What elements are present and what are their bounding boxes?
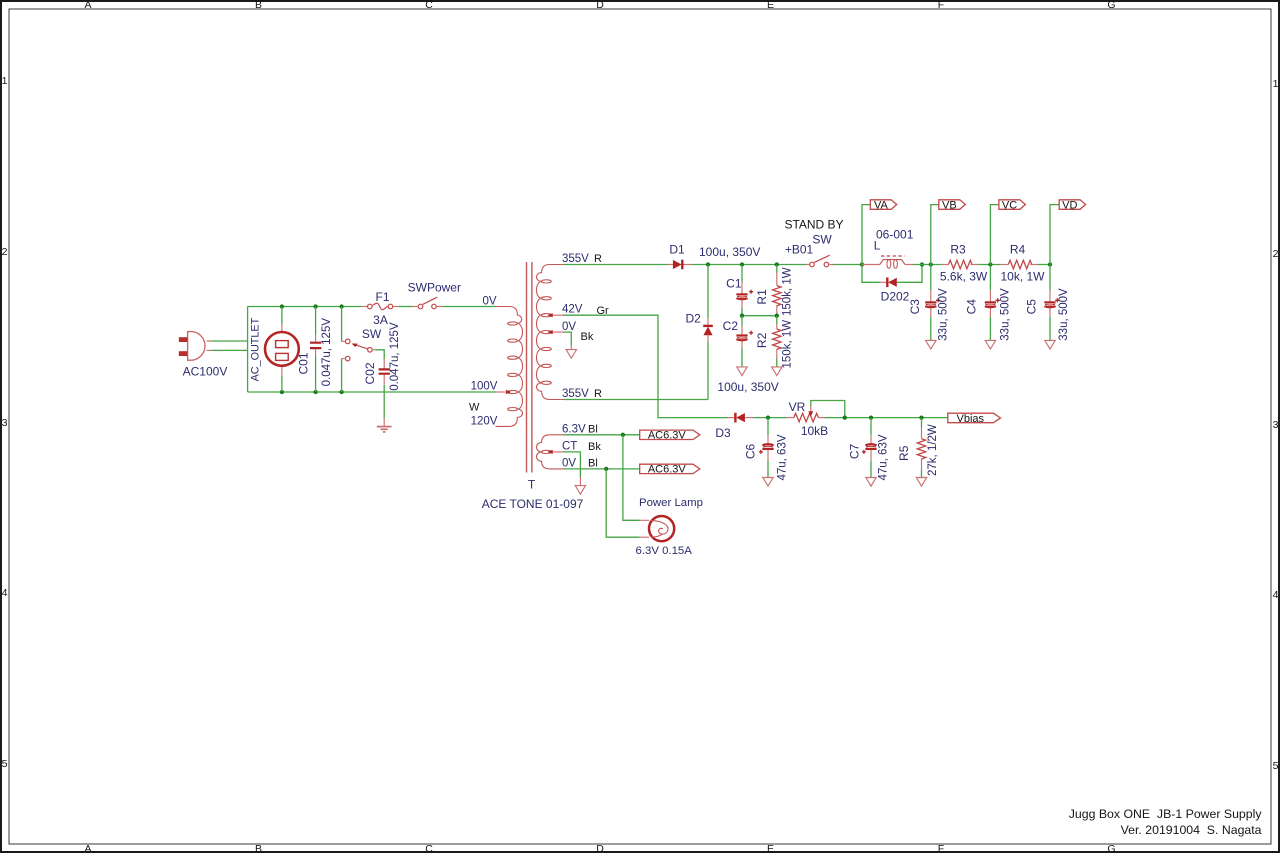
svg-text:VA: VA [874, 199, 889, 211]
capacitor C4 [965, 265, 1012, 350]
wire R4 to VD [1039, 264, 1051, 266]
column letters bottom [84, 843, 1115, 853]
capacitor C1 [699, 245, 760, 316]
svg-text:Jugg Box ONE JB-1 Power Suppl: Jugg Box ONE JB-1 Power Supply [1069, 807, 1263, 821]
svg-text:C5: C5 [1025, 299, 1039, 315]
wire R3 to VC [978, 264, 1000, 266]
svg-text:E: E [767, 843, 774, 853]
potentiometer VR 10kB [787, 400, 829, 438]
svg-text:6.3V: 6.3V [562, 423, 586, 435]
plug P1 AC100V [179, 332, 228, 379]
ground earth symbol [377, 418, 392, 432]
svg-text:33u, 500V: 33u, 500V [938, 288, 950, 341]
svg-text:D3: D3 [715, 426, 731, 440]
svg-text:100u, 350V: 100u, 350V [699, 245, 760, 259]
svg-text:B: B [255, 843, 262, 853]
svg-text:Bl: Bl [588, 423, 598, 435]
diode D3 [715, 413, 753, 440]
wire VB riser [931, 205, 939, 265]
svg-text:C6: C6 [744, 444, 758, 460]
svg-text:STAND BY: STAND BY [784, 218, 843, 232]
label AC6.3V bottom [640, 464, 700, 476]
svg-text:AC6.3V: AC6.3V [648, 464, 687, 476]
svg-text:10k, 1W: 10k, 1W [1000, 270, 1045, 284]
svg-text:C7: C7 [848, 444, 862, 460]
svg-text:10kB: 10kB [801, 424, 828, 438]
wire 42V to D3 [563, 315, 728, 417]
switch SW selector [342, 307, 382, 393]
transformer secondary1 0V tap arrow [553, 331, 564, 333]
capacitor C6 [744, 418, 789, 487]
wire SWPower to transformer 0V [442, 306, 496, 308]
svg-text:Bk: Bk [588, 441, 601, 453]
svg-text:D: D [596, 0, 604, 11]
wire 355V top to D1 [563, 264, 668, 266]
svg-text:D: D [596, 843, 604, 853]
capacitor C7 [848, 418, 890, 487]
svg-text:SW: SW [362, 327, 382, 341]
svg-text:W: W [469, 402, 480, 414]
svg-text:1: 1 [1273, 78, 1279, 90]
svg-text:T: T [528, 478, 536, 492]
svg-text:Ver. 20191004 S. Nagata: Ver. 20191004 S. Nagata [1121, 823, 1262, 837]
svg-text:AC6.3V: AC6.3V [648, 430, 687, 442]
svg-text:150k, 1W: 150k, 1W [782, 267, 794, 316]
svg-text:C4: C4 [965, 299, 979, 315]
node bottom bus junctions [280, 390, 284, 394]
svg-text:47u, 63V: 47u, 63V [877, 434, 889, 480]
svg-text:33u, 500V: 33u, 500V [999, 288, 1011, 341]
svg-text:100V: 100V [471, 381, 498, 393]
svg-text:1: 1 [2, 75, 8, 87]
svg-text:B: B [255, 0, 262, 11]
wire plug to bus [212, 341, 248, 350]
svg-text:C01: C01 [296, 352, 310, 374]
svg-text:5: 5 [2, 758, 8, 770]
svg-text:0V: 0V [483, 296, 497, 308]
capacitor C5 [1025, 265, 1070, 350]
svg-text:0.047u, 125V: 0.047u, 125V [389, 322, 401, 391]
svg-text:D2: D2 [686, 312, 702, 326]
svg-text:355V: 355V [562, 388, 589, 400]
outlet J1 AC_OUTLET [249, 307, 298, 393]
wire VR to Vbias [825, 417, 948, 419]
svg-text:2: 2 [2, 246, 8, 258]
resistor R1 [755, 265, 794, 316]
svg-text:F1: F1 [375, 290, 389, 304]
svg-text:47u, 63V: 47u, 63V [776, 434, 788, 480]
svg-text:Vbias: Vbias [957, 413, 985, 425]
svg-text:ACE TONE 01-097: ACE TONE 01-097 [482, 497, 584, 511]
svg-text:A: A [84, 843, 91, 853]
svg-text:A: A [84, 0, 91, 11]
row numbers right [1273, 78, 1279, 772]
svg-text:D202: D202 [881, 290, 910, 304]
svg-text:D1: D1 [669, 242, 685, 256]
fuse F1 3A [361, 290, 399, 327]
svg-text:R4: R4 [1010, 243, 1026, 257]
label VA [870, 199, 896, 211]
svg-text:120V: 120V [471, 416, 498, 428]
svg-text:4: 4 [1273, 589, 1279, 601]
label VB [939, 199, 966, 211]
row numbers left [2, 75, 8, 770]
capacitor C01 [296, 307, 333, 393]
svg-text:Bk: Bk [581, 331, 594, 343]
svg-text:355V: 355V [562, 253, 589, 265]
transformer T secondary 1 winding [537, 265, 564, 400]
capacitor C02 [363, 322, 401, 391]
svg-text:R: R [594, 388, 602, 400]
wire D3 to VR [753, 417, 787, 419]
svg-text:R3: R3 [950, 243, 966, 257]
transformer secondary1 42V tap arrow [553, 314, 564, 316]
diode D2 [686, 265, 713, 343]
wire standby SW to VA node [833, 264, 862, 266]
transformer secondary2 CT tap arrow [553, 451, 564, 453]
svg-text:C02: C02 [363, 362, 377, 384]
wire VC riser [990, 205, 999, 265]
svg-text:F: F [938, 843, 944, 853]
transformer T core [527, 262, 532, 473]
svg-text:SWPower: SWPower [408, 281, 461, 295]
svg-text:C: C [425, 843, 433, 853]
svg-text:3A: 3A [373, 313, 388, 327]
svg-text:06-001: 06-001 [876, 228, 914, 242]
svg-text:C2: C2 [723, 319, 739, 333]
svg-text:VD: VD [1062, 199, 1077, 211]
wire lamp bottom feed [606, 469, 640, 537]
svg-text:0V: 0V [562, 457, 576, 469]
wire 0V to AC6.3V label [563, 468, 640, 470]
capacitor C2 [717, 316, 778, 394]
svg-text:R: R [594, 253, 602, 265]
svg-text:0.047u, 125V: 0.047u, 125V [321, 318, 333, 387]
ground sec1 0V [566, 350, 576, 359]
svg-text:0V: 0V [562, 321, 576, 333]
label AC6.3V top [640, 430, 700, 442]
resistor R2 [755, 316, 794, 376]
wire D2 to 355V bottom [563, 342, 708, 400]
resistor R4 [1000, 243, 1045, 284]
svg-text:C3: C3 [908, 299, 922, 315]
wire VD riser [1050, 205, 1059, 265]
wire C02 to earth [383, 385, 385, 418]
resistor R3 [940, 243, 988, 284]
svg-text:VC: VC [1002, 199, 1017, 211]
label VD [1059, 199, 1085, 211]
svg-text:2: 2 [1273, 248, 1279, 260]
wire D1 to standby SW [692, 264, 806, 266]
svg-text:3: 3 [2, 417, 8, 429]
svg-text:6.3V 0.15A: 6.3V 0.15A [636, 545, 693, 557]
wire sec1 0V to ground [563, 332, 571, 345]
wire CT to ground [563, 452, 580, 477]
svg-text:C: C [425, 0, 433, 11]
transformer primary 100V tap arrow [496, 391, 505, 393]
transformer T secondary 2 winding 6.3V [537, 435, 564, 469]
svg-text:100u, 350V: 100u, 350V [717, 380, 778, 394]
svg-text:E: E [767, 0, 774, 11]
svg-text:R2: R2 [755, 332, 769, 348]
svg-text:+B01: +B01 [785, 243, 814, 257]
svg-text:VB: VB [942, 199, 957, 211]
svg-text:R5: R5 [897, 445, 911, 461]
resistor R5 [897, 418, 939, 487]
diode D1 [668, 242, 692, 269]
svg-text:27k, 1/2W: 27k, 1/2W [927, 424, 939, 476]
wire VA riser [862, 205, 870, 265]
svg-text:Bl: Bl [588, 457, 598, 469]
inductor L 06-001 [862, 228, 914, 269]
svg-text:R1: R1 [755, 289, 769, 305]
transformer T primary winding [496, 307, 523, 427]
svg-text:SW: SW [812, 232, 832, 246]
svg-text:5.6k, 3W: 5.6k, 3W [940, 270, 988, 284]
svg-text:G: G [1107, 0, 1115, 11]
ground CT [575, 486, 585, 495]
wire 6.3V to AC6.3V label [563, 434, 640, 436]
node top bus junctions [280, 304, 284, 308]
capacitor C3 [908, 265, 950, 350]
wire D202 bypass [862, 265, 922, 283]
title block text [1069, 807, 1263, 837]
svg-text:150k, 1W: 150k, 1W [782, 320, 794, 369]
svg-text:5: 5 [1273, 760, 1279, 772]
diode D202 [880, 278, 910, 304]
wire rail L to VB [913, 264, 941, 266]
svg-text:VR: VR [789, 400, 806, 414]
label VC [999, 199, 1026, 211]
wire lamp top feed [623, 435, 640, 521]
wire C1-R1 mid [742, 315, 777, 317]
svg-text:CT: CT [562, 441, 577, 453]
column letters top [84, 0, 1115, 11]
svg-text:3: 3 [1273, 419, 1279, 431]
svg-text:42V: 42V [562, 304, 583, 316]
lamp DS1 Power Lamp [636, 497, 703, 557]
wire SW to C02 [376, 350, 384, 359]
svg-text:G: G [1107, 843, 1115, 853]
svg-text:33u, 500V: 33u, 500V [1058, 288, 1070, 341]
svg-text:AC_OUTLET: AC_OUTLET [249, 317, 261, 381]
label Vbias [948, 413, 1001, 425]
switch SW standby [784, 218, 843, 267]
wire VR wiper loop [811, 401, 845, 418]
svg-text:F: F [938, 0, 944, 11]
svg-text:4: 4 [2, 587, 8, 599]
switch SWPower [408, 281, 461, 309]
wire left bus vertical [248, 307, 497, 393]
svg-text:C1: C1 [726, 276, 742, 290]
svg-text:Power Lamp: Power Lamp [639, 497, 703, 509]
svg-text:AC100V: AC100V [183, 365, 228, 379]
wire F1 to SWPower [399, 306, 413, 308]
